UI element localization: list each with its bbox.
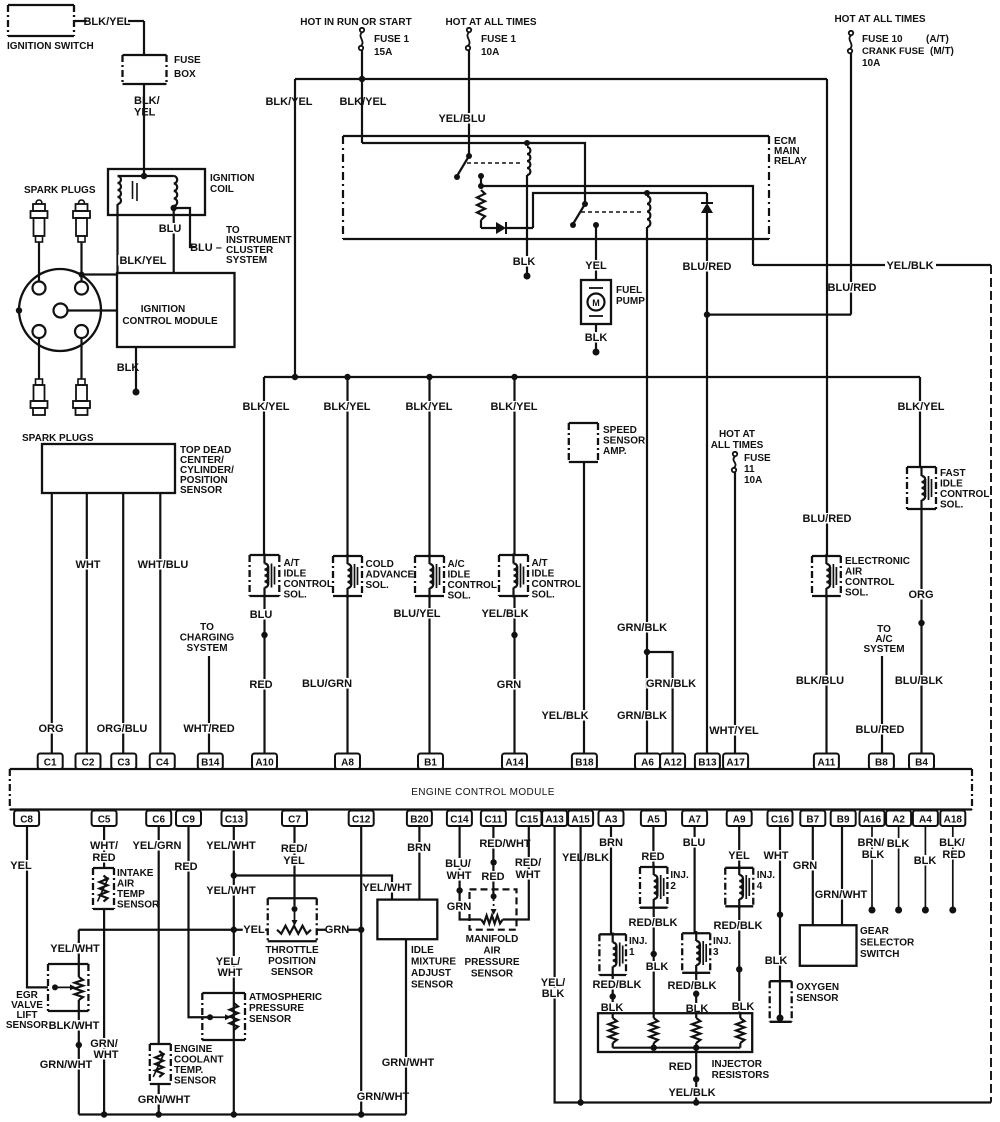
svg-text:YEL: YEL xyxy=(283,855,305,867)
svg-text:RED: RED xyxy=(669,1061,692,1073)
A/C idle control solenoid xyxy=(415,556,444,596)
wire WHT tdc to C2 xyxy=(86,493,88,753)
svg-text:IGNITION: IGNITION xyxy=(210,173,254,184)
svg-text:C4: C4 xyxy=(156,758,169,769)
junction A15 ground xyxy=(577,1099,583,1105)
svg-text:COIL: COIL xyxy=(210,184,234,195)
connector pin A8 xyxy=(335,754,360,770)
connector pin A7 xyxy=(682,811,707,827)
svg-text:BLK: BLK xyxy=(862,849,885,861)
svg-text:BLK/YEL: BLK/YEL xyxy=(323,401,370,413)
svg-text:BLK/YEL: BLK/YEL xyxy=(119,255,166,267)
svg-text:A/T: A/T xyxy=(284,558,300,569)
svg-text:AIR: AIR xyxy=(117,879,135,890)
svg-text:YEL/WHT: YEL/WHT xyxy=(206,840,256,852)
connector pin C11 xyxy=(481,811,506,827)
svg-text:A/C: A/C xyxy=(448,559,465,570)
svg-text:RED: RED xyxy=(942,849,965,861)
svg-text:B13: B13 xyxy=(698,758,717,769)
junction line B start xyxy=(478,183,484,189)
svg-text:YEL: YEL xyxy=(10,860,32,872)
fuse F3 crank fuse 10A xyxy=(849,31,853,35)
junction GRN splice xyxy=(511,632,517,638)
svg-text:RELAY: RELAY xyxy=(774,156,807,167)
svg-text:3: 3 xyxy=(713,947,719,958)
fuse box xyxy=(123,55,167,84)
svg-text:RED: RED xyxy=(641,851,664,863)
svg-text:TEMP.: TEMP. xyxy=(174,1065,203,1076)
atmospheric pressure sensor xyxy=(202,993,245,1040)
wire BLK/YEL to cold advance sol xyxy=(346,377,348,556)
svg-text:CONTROL MODULE: CONTROL MODULE xyxy=(122,316,218,327)
wire RED A5 to injector 2 xyxy=(652,827,654,868)
connector pin A9 xyxy=(727,811,752,827)
relay line C from diode1 xyxy=(533,193,707,228)
relay coil L1 xyxy=(527,147,530,175)
wire RED/WHT C15 to MAP sensor xyxy=(503,827,529,920)
svg-text:A2: A2 xyxy=(892,815,905,826)
svg-text:MIXTURE: MIXTURE xyxy=(411,957,456,968)
wire distributor rotor to module xyxy=(68,309,118,311)
junction C13 branch to idle mixture xyxy=(231,872,237,878)
wire BRN/BLK A16 terminal xyxy=(871,827,873,911)
svg-text:BLK: BLK xyxy=(117,362,140,374)
svg-text:C6: C6 xyxy=(152,815,165,826)
svg-text:YEL: YEL xyxy=(243,924,265,936)
terminal BLK module ground xyxy=(133,389,140,396)
wire BLK/RED A18 terminal xyxy=(952,827,954,911)
svg-text:TEMP: TEMP xyxy=(117,889,145,900)
svg-text:BRN: BRN xyxy=(599,837,623,849)
svg-text:(M/T): (M/T) xyxy=(930,46,954,57)
svg-text:A15: A15 xyxy=(571,815,590,826)
svg-text:WHT: WHT xyxy=(75,559,100,571)
wire BLK relay coil1 to ground terminal xyxy=(526,175,528,276)
connector pin B14 xyxy=(198,754,223,770)
wire plug P1 to distributor xyxy=(38,242,40,282)
wire BLK fuel pump ground xyxy=(595,324,597,350)
svg-text:10A: 10A xyxy=(481,47,499,58)
injector INJ4 xyxy=(725,868,753,907)
svg-text:SENSOR: SENSOR xyxy=(174,1076,217,1087)
connector pin A18 xyxy=(940,811,965,827)
svg-text:C16: C16 xyxy=(771,815,790,826)
connector pin A2 xyxy=(886,811,911,827)
svg-text:YEL/BLK: YEL/BLK xyxy=(886,260,933,272)
svg-text:WHT/BLU: WHT/BLU xyxy=(138,559,189,571)
wire RED C9 to atmospheric pressure sensor xyxy=(189,827,211,1018)
svg-text:B18: B18 xyxy=(575,758,594,769)
wire BLU coil secondary to module xyxy=(173,208,175,273)
svg-text:CRANK FUSE: CRANK FUSE xyxy=(862,46,924,57)
svg-text:BLU/BLK: BLU/BLK xyxy=(895,675,943,687)
junction BLU/WHT splice xyxy=(456,887,462,893)
svg-text:BRN: BRN xyxy=(407,842,431,854)
svg-text:B20: B20 xyxy=(410,815,429,826)
junction BLU/RED splice xyxy=(261,632,267,638)
svg-text:MANIFOLD: MANIFOLD xyxy=(466,934,519,945)
junction RED splice xyxy=(490,859,496,865)
terminal BLK coil1 ground xyxy=(524,273,531,280)
svg-text:A5: A5 xyxy=(647,815,660,826)
svg-text:BLK/YEL: BLK/YEL xyxy=(339,96,386,108)
svg-text:A6: A6 xyxy=(641,758,654,769)
injector INJ3 xyxy=(682,933,710,973)
wire distributor to plug P4 xyxy=(80,338,82,379)
wire BLK A4 terminal xyxy=(924,827,926,911)
svg-text:INJ.: INJ. xyxy=(713,936,732,947)
wire RED/BLK injector 1 to resistor xyxy=(612,975,614,1013)
svg-text:RED/BLK: RED/BLK xyxy=(668,980,717,992)
svg-text:PRESSURE: PRESSURE xyxy=(249,1003,304,1014)
junction intake air ground xyxy=(101,1111,107,1117)
svg-text:A16: A16 xyxy=(863,815,882,826)
injector resistor R5 xyxy=(739,1013,741,1018)
svg-text:10A: 10A xyxy=(862,58,880,69)
wire YEL/BLK right edge down to bottom bus xyxy=(990,265,992,1103)
svg-text:GRN/WHT: GRN/WHT xyxy=(382,1057,435,1069)
svg-text:WHT: WHT xyxy=(93,1049,118,1061)
svg-text:BLU –: BLU – xyxy=(190,242,222,254)
svg-text:WHT/YEL: WHT/YEL xyxy=(709,725,759,737)
svg-text:TO: TO xyxy=(200,622,214,633)
terminal distributor left xyxy=(16,307,22,313)
svg-text:BLU/RED: BLU/RED xyxy=(856,724,905,736)
engine coolant temp sensor xyxy=(150,1044,171,1084)
svg-text:C1: C1 xyxy=(44,758,57,769)
ignition control module U1 xyxy=(117,273,235,347)
svg-text:INJECTOR: INJECTOR xyxy=(712,1059,763,1070)
svg-text:YEL/BLU: YEL/BLU xyxy=(438,113,485,125)
wire BLK A2 terminal xyxy=(898,827,900,911)
svg-text:GRN: GRN xyxy=(497,679,522,691)
connector pin C1 xyxy=(38,754,63,770)
svg-text:BLK/YEL: BLK/YEL xyxy=(405,401,452,413)
svg-text:BLU/RED: BLU/RED xyxy=(828,282,877,294)
electronic air control solenoid xyxy=(812,556,841,596)
svg-text:GRN/WHT: GRN/WHT xyxy=(815,889,868,901)
wire YEL/WHT C13 down xyxy=(233,827,235,1115)
svg-text:GRN/BLK: GRN/BLK xyxy=(617,710,667,722)
wire BLK/WHT EGR sensor to ground bus xyxy=(78,1000,80,1115)
junction inj2 splice xyxy=(651,951,657,957)
svg-text:GRN/BLK: GRN/BLK xyxy=(617,622,667,634)
wire C12 to ground bus xyxy=(360,827,362,1115)
svg-text:SWITCH: SWITCH xyxy=(860,949,899,960)
svg-text:BLK/YEL: BLK/YEL xyxy=(265,96,312,108)
junction oxygen sensor splice xyxy=(777,912,783,918)
wire GRN/BLK branch to A12 xyxy=(647,652,673,753)
junction coolant ground xyxy=(156,1111,162,1117)
svg-text:B7: B7 xyxy=(806,815,819,826)
injector INJ1 xyxy=(599,934,626,975)
svg-text:YEL/BLK: YEL/BLK xyxy=(668,1087,715,1099)
svg-text:BLK/YEL: BLK/YEL xyxy=(490,401,537,413)
svg-text:CONTROL: CONTROL xyxy=(532,579,581,590)
junction GRN/BLK branch xyxy=(644,649,650,655)
svg-text:C9: C9 xyxy=(182,815,195,826)
wire YEL relay to fuel pump xyxy=(595,225,597,280)
svg-text:B1: B1 xyxy=(424,758,437,769)
svg-text:GRN/WHT: GRN/WHT xyxy=(40,1059,93,1071)
svg-text:SOL.: SOL. xyxy=(940,500,964,511)
svg-text:A13: A13 xyxy=(545,815,564,826)
wire BLK/YEL coil primary to ignition control module xyxy=(116,204,118,273)
svg-text:CONTROL: CONTROL xyxy=(448,580,497,591)
svg-text:(A/T): (A/T) xyxy=(926,34,949,45)
junction C13 ground xyxy=(231,1111,237,1117)
bus BLK/YEL lower horizontal xyxy=(264,376,920,378)
junction a/c idle drop xyxy=(426,374,432,380)
svg-text:YEL/BLK: YEL/BLK xyxy=(562,852,609,864)
connector pin B7 xyxy=(800,811,825,827)
connector pin C9 xyxy=(176,811,201,827)
svg-text:IDLE: IDLE xyxy=(284,569,307,580)
fuse F2 10A xyxy=(467,28,471,32)
wire BLK/YEL bus to fast idle control sol xyxy=(919,377,921,467)
wire YEL A9 to injector 4 xyxy=(738,827,740,868)
svg-text:1: 1 xyxy=(629,947,635,958)
wire GRN/WHT idle mixture sensor to ground bus xyxy=(405,939,407,1114)
wire top bus right corner down to electronic air control sol xyxy=(826,79,828,556)
wire RED/YEL C7 to throttle sensor xyxy=(293,827,295,907)
svg-text:SENSOR: SENSOR xyxy=(249,1014,292,1025)
svg-text:B9: B9 xyxy=(837,815,850,826)
gear selector switch xyxy=(800,925,857,966)
relay diode D2 xyxy=(706,193,708,203)
svg-text:FUSE 10: FUSE 10 xyxy=(862,34,903,45)
bus BLK/YEL top horizontal xyxy=(295,78,827,80)
svg-text:ORG: ORG xyxy=(908,589,933,601)
svg-text:GRN/WHT: GRN/WHT xyxy=(138,1094,191,1106)
wire ORG tdc to C1 xyxy=(51,493,53,753)
svg-text:A/T: A/T xyxy=(532,558,548,569)
ignition coil T1 xyxy=(108,169,205,215)
label RED wire to A10 xyxy=(250,679,272,690)
distributor xyxy=(19,269,101,351)
svg-text:BLK: BLK xyxy=(585,332,608,344)
wire distributor to plug P3 xyxy=(38,338,40,379)
svg-text:WHT: WHT xyxy=(446,870,471,882)
svg-text:PRESSURE: PRESSURE xyxy=(464,957,519,968)
connector pin A13 xyxy=(542,811,567,827)
svg-text:IGNITION: IGNITION xyxy=(141,304,185,315)
wire BLK/YEL bus to A/T idle control sol left xyxy=(263,377,265,555)
svg-text:A10: A10 xyxy=(255,758,274,769)
wire BLU coil to instrument cluster xyxy=(174,208,196,247)
spark plug P4 xyxy=(78,379,85,385)
svg-text:BLU: BLU xyxy=(683,837,706,849)
EGR sensor potentiometer xyxy=(52,984,58,990)
svg-text:WHT/: WHT/ xyxy=(90,840,118,852)
top dead center cylinder position sensor xyxy=(42,444,175,493)
svg-text:RED: RED xyxy=(92,852,115,864)
connector pin C13 xyxy=(222,811,247,827)
svg-text:GRN: GRN xyxy=(793,860,818,872)
svg-text:FUSE: FUSE xyxy=(174,55,201,66)
relay coil L2 xyxy=(647,196,650,227)
wire RED/BLK injector 3 to resistor xyxy=(695,973,697,1013)
svg-text:A17: A17 xyxy=(726,758,745,769)
svg-text:RED: RED xyxy=(481,871,504,883)
svg-text:COOLANT: COOLANT xyxy=(174,1055,223,1066)
wire ORG fast idle sol to B4 xyxy=(920,509,922,753)
relay diode D1 xyxy=(480,220,482,228)
connector pin A3 xyxy=(599,811,624,827)
connector pin A14 xyxy=(502,754,527,770)
svg-text:SENSOR: SENSOR xyxy=(271,967,314,978)
svg-text:RED/BLK: RED/BLK xyxy=(593,979,642,991)
svg-text:GRN: GRN xyxy=(325,924,350,936)
junction inj3 splice xyxy=(693,991,699,997)
svg-text:10A: 10A xyxy=(744,475,762,486)
svg-text:IDLE: IDLE xyxy=(411,945,434,956)
svg-text:BLK/: BLK/ xyxy=(939,837,965,849)
connector pin B8 xyxy=(869,754,894,770)
cold advance solenoid xyxy=(333,556,362,596)
svg-text:C3: C3 xyxy=(117,758,130,769)
svg-text:SENSOR: SENSOR xyxy=(117,900,160,911)
svg-text:11: 11 xyxy=(744,464,755,475)
svg-text:B8: B8 xyxy=(875,758,888,769)
svg-text:A7: A7 xyxy=(688,815,701,826)
wire BRN B20 to idle mixture adjust sensor xyxy=(418,827,420,900)
A/T idle control solenoid left xyxy=(250,555,280,596)
svg-text:M: M xyxy=(592,298,600,308)
svg-text:YEL/WHT: YEL/WHT xyxy=(206,885,256,897)
svg-text:BOX: BOX xyxy=(174,69,196,80)
svg-text:GRN: GRN xyxy=(447,901,472,913)
node resistor top xyxy=(478,173,484,179)
wire WHT/RED C5 to intake air temp sensor xyxy=(103,827,105,869)
ignition switch S1 xyxy=(8,5,74,36)
junction coil2 top xyxy=(644,190,650,196)
svg-text:IDLE: IDLE xyxy=(940,479,963,490)
svg-text:SPARK PLUGS: SPARK PLUGS xyxy=(24,185,96,196)
svg-text:IDLE: IDLE xyxy=(532,569,555,580)
svg-text:RED/WHT: RED/WHT xyxy=(479,838,531,850)
wire YEL/BLK A15 to bottom bus xyxy=(579,827,581,1103)
wire GRN/WHT B9 to gear selector switch xyxy=(841,827,843,926)
wire BLU/GRN cold advance to A8 xyxy=(346,596,348,753)
manifold air pressure sensor xyxy=(470,889,517,929)
svg-text:RED: RED xyxy=(249,679,272,691)
svg-text:IDLE: IDLE xyxy=(448,570,471,581)
wire YEL/WHT branch to idle mixture adjust sensor xyxy=(234,876,392,900)
wire GRN/WHT coolant sensor to ground bus xyxy=(158,1084,160,1115)
MAP sensor resistor xyxy=(481,916,502,924)
svg-text:2: 2 xyxy=(670,881,676,892)
svg-text:BLK/BLU: BLK/BLU xyxy=(796,675,844,687)
throttle sensor potentiometer xyxy=(277,926,311,934)
svg-text:HOT AT ALL TIMES: HOT AT ALL TIMES xyxy=(445,17,536,28)
svg-text:SOL.: SOL. xyxy=(284,590,308,601)
svg-text:SPEED: SPEED xyxy=(603,425,637,436)
wire crank fuse to main relay output junction xyxy=(707,314,851,316)
wire YEL/BLK A13 to bottom bus xyxy=(555,827,991,1103)
svg-text:BLK/YEL: BLK/YEL xyxy=(83,16,130,28)
svg-text:BLK/WHT: BLK/WHT xyxy=(49,1020,100,1032)
connector pin A5 xyxy=(641,811,666,827)
svg-text:AIR: AIR xyxy=(845,567,863,578)
svg-text:C8: C8 xyxy=(20,815,33,826)
connector pin B9 xyxy=(831,811,856,827)
svg-text:HOT AT ALL TIMES: HOT AT ALL TIMES xyxy=(834,14,925,25)
connector pin A12 xyxy=(660,754,685,770)
svg-text:BLK: BLK xyxy=(646,961,669,973)
svg-text:WHT/RED: WHT/RED xyxy=(183,723,234,735)
svg-text:BLK/YEL: BLK/YEL xyxy=(897,401,944,413)
svg-text:BLU: BLU xyxy=(250,609,273,621)
svg-text:INJ.: INJ. xyxy=(670,870,689,881)
svg-text:A9: A9 xyxy=(733,815,746,826)
svg-text:BLK: BLK xyxy=(732,1001,755,1013)
injector resistor R4 xyxy=(695,1013,697,1018)
EGR valve lift sensor xyxy=(48,964,88,1011)
svg-text:SOL.: SOL. xyxy=(532,590,556,601)
svg-text:YEL/GRN: YEL/GRN xyxy=(133,840,182,852)
wire BLK/YEL ignition switch to fuse box xyxy=(74,20,87,22)
wire YEL/GRN C6 to coolant temp sensor xyxy=(158,827,160,1045)
terminal oxygen sensor xyxy=(777,1015,784,1022)
svg-text:SENSOR: SENSOR xyxy=(180,485,223,496)
terminal BLK fuel pump ground xyxy=(593,349,600,356)
svg-text:POSITION: POSITION xyxy=(268,956,316,967)
spark plug P2 xyxy=(79,200,85,204)
svg-text:ENGINE CONTROL MODULE: ENGINE CONTROL MODULE xyxy=(411,787,555,798)
svg-text:PUMP: PUMP xyxy=(616,296,645,307)
svg-text:4: 4 xyxy=(757,881,763,892)
junction ORG BLU/BLK splice xyxy=(918,620,924,626)
ground bus left xyxy=(79,1113,406,1115)
wire GRN B7 to gear selector switch xyxy=(812,827,814,926)
svg-text:CONTROL: CONTROL xyxy=(940,489,989,500)
svg-text:RED/: RED/ xyxy=(515,857,541,869)
wire GRN/WHT intake air temp sensor to ground bus xyxy=(103,909,105,1115)
svg-text:AIR: AIR xyxy=(483,946,501,957)
wire YEL/BLK speed sensor to B18 xyxy=(583,462,585,753)
junction BLU/RED with crank fuse wire xyxy=(704,311,710,317)
speed sensor amp xyxy=(569,423,598,462)
connector pin A17 xyxy=(723,754,748,770)
svg-text:BLK: BLK xyxy=(887,838,910,850)
svg-text:RED/BLK: RED/BLK xyxy=(629,917,678,929)
svg-text:A8: A8 xyxy=(341,758,354,769)
svg-text:BLU/RED: BLU/RED xyxy=(683,261,732,273)
wire BLK module ground lead xyxy=(135,347,137,390)
svg-text:BLK: BLK xyxy=(765,955,788,967)
connector pin A15 xyxy=(568,811,593,827)
svg-text:C7: C7 xyxy=(288,815,301,826)
svg-text:RED: RED xyxy=(174,861,197,873)
svg-text:YEL/BLK: YEL/BLK xyxy=(541,710,588,722)
svg-text:RED/BLK: RED/BLK xyxy=(714,920,763,932)
A/T idle control solenoid right xyxy=(499,555,528,596)
svg-text:HOT IN RUN OR START: HOT IN RUN OR START xyxy=(300,17,411,28)
svg-text:C14: C14 xyxy=(450,815,469,826)
relay switch SW2 xyxy=(582,201,588,207)
svg-text:OXYGEN: OXYGEN xyxy=(796,982,839,993)
svg-text:15A: 15A xyxy=(374,47,392,58)
wire ORG/BLU tdc to C3 xyxy=(122,493,124,753)
svg-text:A14: A14 xyxy=(505,758,524,769)
wire YEL/BLU fuse 10A to relay switch xyxy=(468,50,470,156)
wire WHT/YEL fuse 11 to A17 xyxy=(734,472,736,753)
svg-text:AMP.: AMP. xyxy=(603,446,627,457)
svg-text:SENSOR: SENSOR xyxy=(796,993,839,1004)
wire YEL throttle position line xyxy=(79,929,268,931)
wire fuse 1 15A down to relay xyxy=(361,50,363,143)
